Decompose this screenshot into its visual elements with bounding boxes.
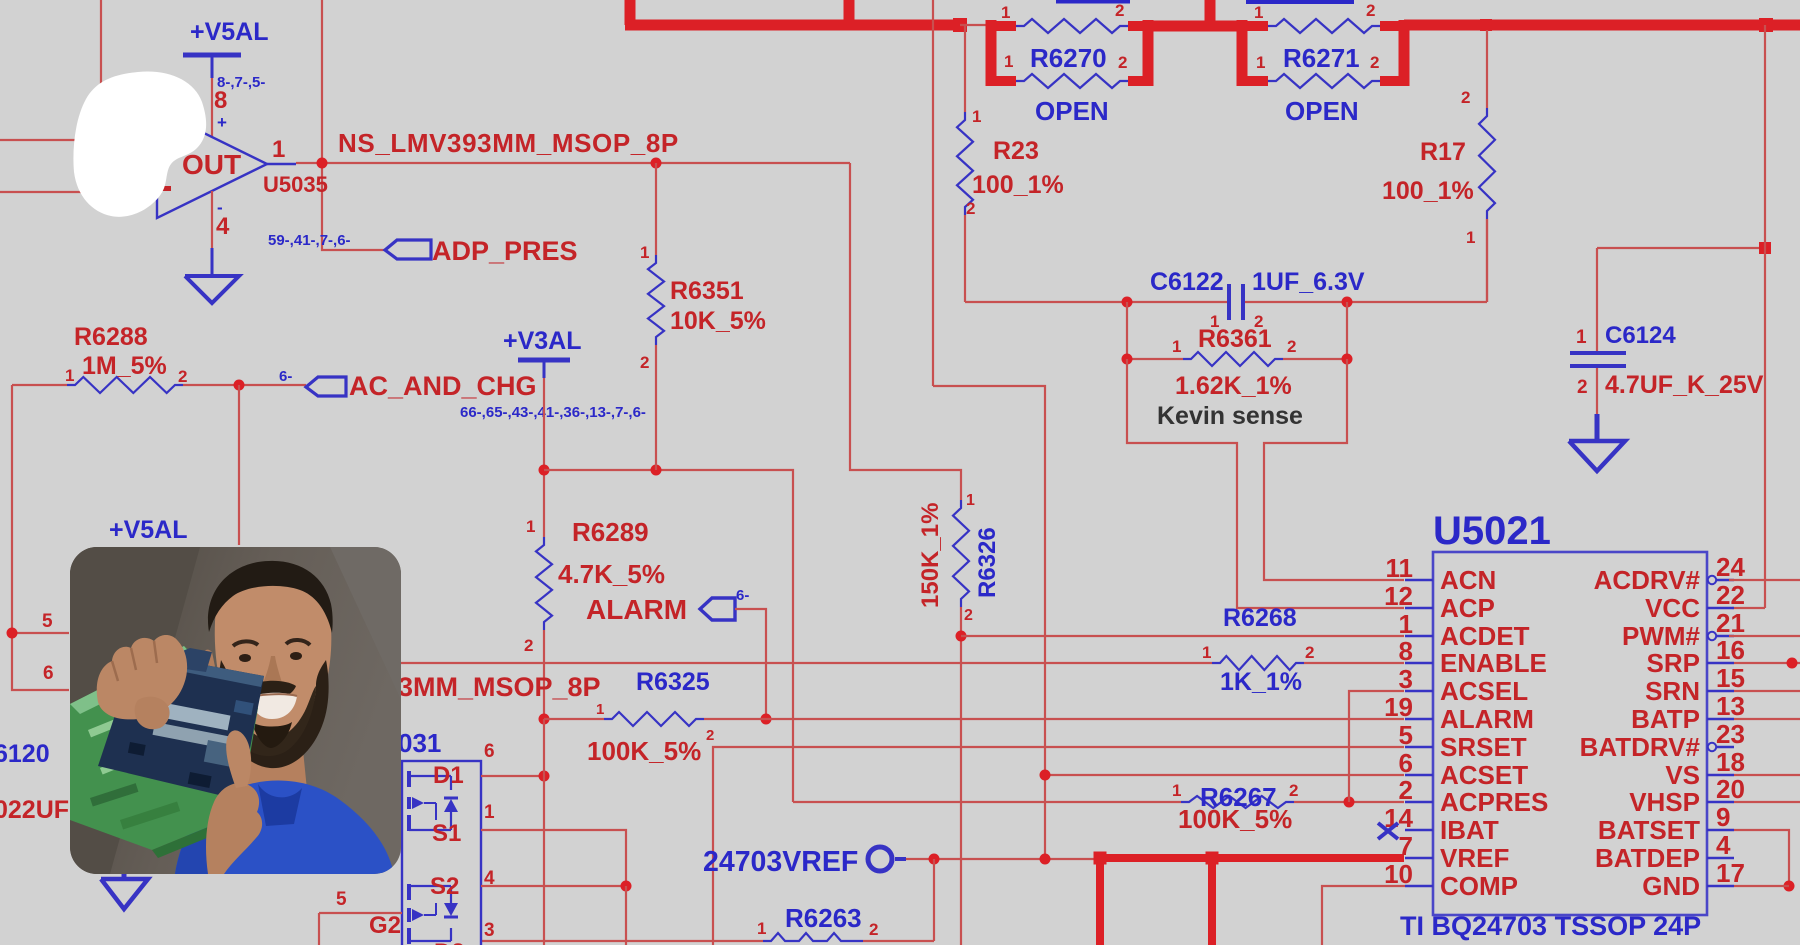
wire xyxy=(0,191,157,193)
pin stub xyxy=(1405,801,1433,803)
node junction xyxy=(651,465,662,476)
wire xyxy=(933,386,1045,859)
wire xyxy=(12,384,67,386)
svg-text:16: 16 xyxy=(1716,635,1745,665)
wire D1 xyxy=(481,775,544,777)
svg-text:R6361: R6361 xyxy=(1198,325,1272,353)
svg-text:+V5AL: +V5AL xyxy=(190,18,269,46)
wire xyxy=(850,163,961,500)
svg-text:ACDET: ACDET xyxy=(1440,621,1530,651)
svg-text:031: 031 xyxy=(398,728,441,758)
wire xyxy=(12,385,69,690)
no-connect X on IBAT xyxy=(1378,823,1398,839)
svg-text:D2: D2 xyxy=(434,939,465,945)
node junction xyxy=(953,18,967,32)
svg-text:R6288: R6288 xyxy=(74,323,148,351)
dark motherboard xyxy=(98,652,264,800)
svg-text:SRP: SRP xyxy=(1647,648,1700,678)
wire COMP xyxy=(1322,886,1405,945)
svg-text:IBAT: IBAT xyxy=(1440,815,1499,845)
wire G2 xyxy=(319,912,402,914)
pin stub xyxy=(1405,579,1433,581)
wire ACDET xyxy=(956,631,967,642)
wire thick bus xyxy=(625,0,636,25)
svg-text:22: 22 xyxy=(1716,580,1745,610)
ground below photo xyxy=(122,869,127,879)
svg-text:3MM_MSOP_8P: 3MM_MSOP_8P xyxy=(398,672,601,702)
pin stub xyxy=(1405,690,1433,692)
svg-text:U5035: U5035 xyxy=(263,172,328,197)
svg-text:1: 1 xyxy=(484,802,495,823)
svg-text:1: 1 xyxy=(1202,643,1211,662)
neck xyxy=(240,720,308,800)
svg-text:2: 2 xyxy=(869,920,878,939)
pin stub xyxy=(1707,885,1734,887)
pin stub xyxy=(1405,857,1433,859)
resistor R6325 xyxy=(544,718,604,720)
svg-text:5: 5 xyxy=(1399,720,1413,750)
svg-text:D1: D1 xyxy=(433,762,464,789)
svg-text:ACN: ACN xyxy=(1440,565,1496,595)
svg-text:24: 24 xyxy=(1716,552,1745,582)
teeth xyxy=(250,693,297,719)
resistor R6263 xyxy=(763,933,863,941)
wire xyxy=(1597,247,1765,249)
svg-text:R6325: R6325 xyxy=(636,668,710,696)
svg-text:1.62K_1%: 1.62K_1% xyxy=(1175,372,1292,400)
svg-text:1: 1 xyxy=(1001,3,1010,22)
wire pin20 xyxy=(1734,801,1800,803)
svg-text:100_1%: 100_1% xyxy=(1382,177,1474,205)
node junction xyxy=(1122,297,1133,308)
wire pin4 stub xyxy=(211,191,213,248)
svg-text:4.7K_5%: 4.7K_5% xyxy=(558,559,665,589)
svg-text:R6289: R6289 xyxy=(572,517,649,547)
svg-text:2: 2 xyxy=(1118,53,1127,72)
wire pin24 xyxy=(1729,579,1800,581)
svg-text:10: 10 xyxy=(1384,859,1413,889)
wire xyxy=(543,719,545,945)
svg-text:+V5AL: +V5AL xyxy=(109,516,188,544)
svg-text:7: 7 xyxy=(1399,831,1413,861)
svg-text:GND: GND xyxy=(1642,871,1700,901)
pin stub xyxy=(1707,662,1734,664)
svg-text:R6268: R6268 xyxy=(1223,604,1297,632)
svg-text:+: + xyxy=(217,113,227,132)
svg-text:1: 1 xyxy=(972,107,981,126)
pointing hand xyxy=(206,783,262,874)
svg-text:66-,65-,43-,41-,36-,13-,7-,6-: 66-,65-,43-,41-,36-,13-,7-,6- xyxy=(460,404,646,421)
pin stub xyxy=(1707,690,1734,692)
svg-text:21: 21 xyxy=(1716,608,1745,638)
wire xyxy=(100,0,102,140)
ear xyxy=(203,650,218,682)
wire xyxy=(906,858,1100,860)
svg-text:2: 2 xyxy=(966,199,975,218)
svg-text:18: 18 xyxy=(1716,747,1745,777)
svg-text:2: 2 xyxy=(1370,53,1379,72)
wire xyxy=(543,378,545,537)
svg-text:2: 2 xyxy=(964,607,973,624)
wire pin16 xyxy=(1734,662,1800,664)
svg-text:OPEN: OPEN xyxy=(1285,96,1359,126)
wire thick VREF xyxy=(1100,854,1404,862)
svg-text:4: 4 xyxy=(216,213,230,240)
svg-text:R6263: R6263 xyxy=(785,903,862,933)
resistor R6270 (with thick strap) xyxy=(986,20,997,86)
svg-text:100K_5%: 100K_5% xyxy=(587,736,701,766)
wire SRSET xyxy=(713,747,1404,945)
resistor R6271 (with thick strap) xyxy=(1237,20,1248,86)
pin stub xyxy=(1405,885,1433,887)
svg-text:R6351: R6351 xyxy=(670,277,744,305)
svg-text:6-: 6- xyxy=(736,587,749,604)
svg-text:022UF: 022UF xyxy=(0,796,69,824)
pin stub xyxy=(1707,718,1734,720)
resistor R17 xyxy=(1486,30,1488,108)
svg-text:1: 1 xyxy=(1466,228,1475,247)
resistor R6267 xyxy=(1181,796,1294,808)
mustache xyxy=(250,681,296,698)
svg-text:15: 15 xyxy=(1716,663,1745,693)
svg-text:TI BQ24703 TSSOP 24P: TI BQ24703 TSSOP 24P xyxy=(1400,911,1701,941)
shirt xyxy=(175,781,394,874)
wire pin21 xyxy=(1729,635,1800,637)
svg-text:VS: VS xyxy=(1665,760,1700,790)
svg-text:ACSEL: ACSEL xyxy=(1440,676,1528,706)
wire xyxy=(544,470,793,802)
wire S1 xyxy=(481,830,626,886)
svg-text:VHSP: VHSP xyxy=(1629,787,1700,817)
pin stub xyxy=(1405,746,1433,748)
svg-text:5: 5 xyxy=(42,611,53,632)
wire xyxy=(932,0,934,386)
svg-text:VCC: VCC xyxy=(1645,593,1700,623)
svg-text:2: 2 xyxy=(1289,781,1298,800)
photo overlay xyxy=(70,547,401,874)
svg-text:2: 2 xyxy=(640,353,649,372)
resistor R6351 xyxy=(655,163,657,255)
svg-text:100K_5%: 100K_5% xyxy=(1178,804,1292,834)
svg-text:ACDRV#: ACDRV# xyxy=(1594,565,1701,595)
svg-text:1: 1 xyxy=(1172,781,1181,800)
wire rail xyxy=(965,301,1229,303)
svg-text:59-,41-,7-,6-: 59-,41-,7-,6- xyxy=(268,232,351,249)
svg-text:2: 2 xyxy=(1287,337,1296,356)
svg-text:1UF_6.3V: 1UF_6.3V xyxy=(1252,268,1365,296)
wire thick xyxy=(1404,20,1800,31)
beard xyxy=(218,660,328,768)
chin beard shadow xyxy=(252,722,292,748)
pin stub xyxy=(1405,635,1433,637)
svg-text:1: 1 xyxy=(1256,53,1265,72)
pin stub xyxy=(1405,718,1433,720)
svg-text:1K_1%: 1K_1% xyxy=(1220,668,1302,696)
svg-text:C6124: C6124 xyxy=(1605,322,1676,349)
svg-text:12: 12 xyxy=(1384,581,1413,611)
svg-text:1M_5%: 1M_5% xyxy=(82,352,167,380)
pin stub xyxy=(1707,857,1734,859)
eyes xyxy=(239,654,251,662)
wire xyxy=(960,24,991,26)
wire pin13 xyxy=(1734,718,1800,720)
node junction xyxy=(317,158,328,169)
svg-text:S1: S1 xyxy=(432,820,461,847)
svg-text:S2: S2 xyxy=(430,873,459,900)
svg-text:AC_AND_CHG: AC_AND_CHG xyxy=(349,371,537,401)
pin stub xyxy=(1405,607,1433,609)
resistor R6361 xyxy=(1126,302,1128,359)
svg-text:NS_LMV393MM_MSOP_8P: NS_LMV393MM_MSOP_8P xyxy=(338,128,679,158)
wire ACSEL xyxy=(1349,691,1404,802)
pin stub xyxy=(1405,662,1433,664)
svg-text:3: 3 xyxy=(1399,664,1413,694)
wire pin18 xyxy=(1734,774,1800,776)
node junction xyxy=(539,465,550,476)
svg-text:2: 2 xyxy=(1115,1,1124,20)
svg-text:U5021: U5021 xyxy=(1433,509,1551,553)
node junction xyxy=(761,714,772,725)
svg-text:19: 19 xyxy=(1384,692,1413,722)
svg-text:1: 1 xyxy=(966,492,975,509)
wire xyxy=(1764,25,1766,608)
svg-text:C6122: C6122 xyxy=(1150,268,1224,296)
wire xyxy=(735,609,766,719)
pin stub xyxy=(1707,829,1734,831)
node junction xyxy=(1344,797,1355,808)
face xyxy=(215,573,332,750)
svg-text:ADP_PRES: ADP_PRES xyxy=(432,236,578,266)
svg-text:BATP: BATP xyxy=(1631,704,1700,734)
resistor R6289 xyxy=(536,537,552,630)
wire xyxy=(238,385,240,545)
pin stub xyxy=(1405,774,1433,776)
svg-text:2: 2 xyxy=(178,367,187,386)
svg-text:ACPRES: ACPRES xyxy=(1440,787,1548,817)
hair xyxy=(208,561,333,633)
svg-text:R6271: R6271 xyxy=(1283,43,1360,73)
svg-text:PWM#: PWM# xyxy=(1622,621,1701,651)
svg-text:3: 3 xyxy=(484,920,495,941)
svg-text:R23: R23 xyxy=(993,137,1039,165)
svg-text:R6326: R6326 xyxy=(974,527,1001,598)
svg-text:6-: 6- xyxy=(279,368,292,385)
svg-text:ACP: ACP xyxy=(1440,593,1495,623)
svg-text:ALARM: ALARM xyxy=(586,594,687,625)
svg-text:2: 2 xyxy=(1577,377,1588,398)
wire pin15 xyxy=(1734,690,1800,692)
svg-text:BATDRV#: BATDRV# xyxy=(1580,732,1701,762)
svg-text:9: 9 xyxy=(1716,802,1730,832)
svg-text:10K_5%: 10K_5% xyxy=(670,307,766,335)
svg-text:6: 6 xyxy=(1399,748,1413,778)
svg-text:1: 1 xyxy=(1399,609,1413,639)
ground xyxy=(185,276,239,303)
svg-text:1: 1 xyxy=(640,243,649,262)
wire ENABLE xyxy=(401,662,1212,664)
wire ACPRES xyxy=(793,801,1181,803)
pin stub xyxy=(1708,576,1716,584)
wire xyxy=(481,940,763,942)
svg-text:ENABLE: ENABLE xyxy=(1440,648,1547,678)
svg-text:6: 6 xyxy=(43,663,54,684)
svg-text:OUT: OUT xyxy=(182,149,241,180)
op-amp U5035 xyxy=(157,110,267,218)
node junction xyxy=(1480,19,1492,31)
wire pin8 stub xyxy=(211,78,213,137)
svg-text:ACSET: ACSET xyxy=(1440,760,1528,790)
brows xyxy=(233,641,258,646)
pin stub xyxy=(1405,829,1433,831)
svg-text:VREF: VREF xyxy=(1440,843,1509,873)
svg-text:4.7UF_K_25V: 4.7UF_K_25V xyxy=(1605,371,1764,399)
green pcb xyxy=(70,646,258,850)
svg-text:1: 1 xyxy=(1254,3,1263,22)
svg-text:1: 1 xyxy=(1004,52,1013,71)
svg-text:SRSET: SRSET xyxy=(1440,732,1527,762)
wire xyxy=(933,859,935,941)
pin stub xyxy=(1707,801,1734,803)
svg-text:23: 23 xyxy=(1716,719,1745,749)
svg-text:8: 8 xyxy=(1399,636,1413,666)
svg-text:1: 1 xyxy=(596,701,604,718)
svg-text:2: 2 xyxy=(1461,88,1470,107)
svg-text:G2: G2 xyxy=(369,912,401,939)
svg-text:1: 1 xyxy=(272,136,285,163)
svg-text:1: 1 xyxy=(1576,327,1587,348)
svg-text:+V3AL: +V3AL xyxy=(503,327,582,355)
svg-text:2: 2 xyxy=(1366,1,1375,20)
svg-text:2: 2 xyxy=(706,727,714,744)
pin stub xyxy=(1707,607,1734,609)
svg-text:24703VREF: 24703VREF xyxy=(703,846,858,878)
svg-text:4: 4 xyxy=(1716,830,1731,860)
resistor R6326 xyxy=(953,500,969,607)
left hand on top xyxy=(97,635,187,719)
svg-text:2: 2 xyxy=(1305,643,1314,662)
svg-text:BATSET: BATSET xyxy=(1598,815,1700,845)
ground xyxy=(1595,414,1600,441)
svg-text:6120: 6120 xyxy=(0,740,50,768)
capacitor C6124 xyxy=(1596,248,1598,351)
node junction xyxy=(234,380,245,391)
svg-text:5: 5 xyxy=(336,889,347,910)
svg-text:COMP: COMP xyxy=(1440,871,1518,901)
logo blob xyxy=(73,72,206,217)
svg-text:6: 6 xyxy=(484,741,495,762)
wire xyxy=(0,139,157,141)
svg-text:1: 1 xyxy=(757,919,766,938)
svg-text:R17: R17 xyxy=(1420,138,1466,166)
svg-text:8: 8 xyxy=(214,87,227,114)
svg-text:R6270: R6270 xyxy=(1030,43,1107,73)
svg-text:11: 11 xyxy=(1386,553,1414,583)
svg-text:100_1%: 100_1% xyxy=(972,171,1064,199)
svg-text:Kevin sense: Kevin sense xyxy=(1157,402,1303,430)
wire op-amp output xyxy=(296,162,850,164)
wire S2 xyxy=(481,885,626,887)
wire ACSET xyxy=(1045,774,1404,776)
svg-text:150K_1%: 150K_1% xyxy=(917,503,944,608)
wire pin9/17 xyxy=(1734,830,1789,886)
svg-text:2: 2 xyxy=(524,636,533,655)
svg-text:13: 13 xyxy=(1716,691,1745,721)
pin stub xyxy=(1707,774,1734,776)
svg-text:SRN: SRN xyxy=(1645,676,1700,706)
svg-text:17: 17 xyxy=(1716,858,1745,888)
wire xyxy=(12,632,69,634)
node ADP_PRES wire xyxy=(322,0,385,250)
capacitor C6122 xyxy=(1227,284,1231,320)
wire kevin box xyxy=(1127,359,1404,608)
resistor R6268 xyxy=(1212,656,1304,670)
svg-text:OPEN: OPEN xyxy=(1035,96,1109,126)
svg-text:ALARM: ALARM xyxy=(1440,704,1534,734)
svg-text:20: 20 xyxy=(1716,774,1745,804)
svg-text:BATDEP: BATDEP xyxy=(1595,843,1700,873)
wire ALARM row xyxy=(766,718,1404,720)
pin stub xyxy=(1708,632,1716,640)
wire thick xyxy=(1148,21,1247,32)
pin stub xyxy=(1708,743,1716,751)
resistor R23 xyxy=(964,25,966,112)
nose xyxy=(262,656,283,691)
svg-text:2: 2 xyxy=(1399,775,1413,805)
svg-text:1: 1 xyxy=(65,366,74,385)
svg-text:1: 1 xyxy=(526,517,535,536)
svg-text:1: 1 xyxy=(1172,337,1181,356)
